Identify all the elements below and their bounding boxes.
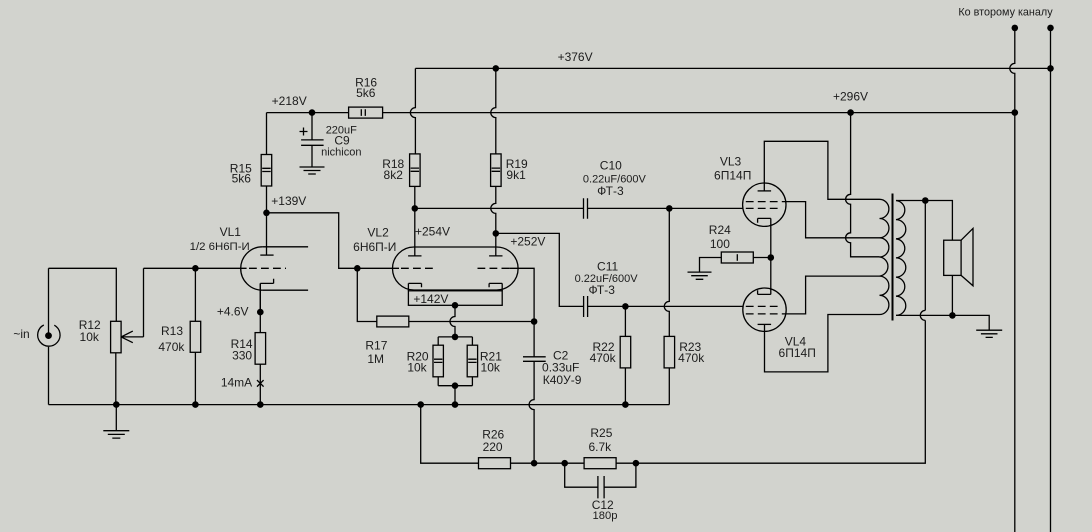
svg-text:1M: 1M [367, 352, 384, 366]
capacitor C11 0.22uF/600V [584, 296, 588, 317]
wire: C11 output line to VL4 grid [588, 305, 743, 307]
wire: R22 leads [624, 306, 626, 404]
node: ground rail at R26 branch [417, 401, 424, 408]
svg-text:180p: 180p [593, 510, 618, 522]
wire: VL2 right anode lead [495, 233, 497, 256]
svg-text:1/2 6Н6П-И: 1/2 6Н6П-И [190, 241, 250, 253]
svg-text:VL2: VL2 [367, 225, 389, 239]
svg-text:+139V: +139V [271, 194, 306, 208]
node: +252V [493, 230, 500, 237]
wire: R20/R21 top and bottom bars and leads [438, 337, 472, 405]
node: R25 left / C12 [561, 460, 568, 467]
wire: R25 right lead [616, 462, 636, 464]
wire: R19 bottom lead with hop over +254V line [491, 186, 496, 233]
node: +296V at channel line 1 [1012, 109, 1019, 116]
svg-text:+142V: +142V [413, 292, 448, 306]
node: VL3/VL4 cathodes at R24 [768, 254, 775, 261]
node: R20/R21 top [452, 334, 459, 341]
resistor R20 10k [433, 345, 443, 377]
ground (C9) [300, 167, 325, 174]
node: R20/R21 bottom [452, 382, 459, 389]
wire: VL2 cathode box bottom to R20/R21 with hop over R17 line [450, 305, 455, 337]
wire: bottom ground rail [49, 404, 670, 406]
wire: +296V feed to primary centre tap with two hops [846, 113, 880, 257]
node: ground rail at R14 [257, 401, 264, 408]
svg-text:~in: ~in [13, 327, 29, 341]
svg-text:+4.6V: +4.6V [217, 305, 249, 319]
capacitor C2 0.33uF K40U-9 [523, 357, 546, 362]
svg-text:+252V: +252V [510, 235, 545, 249]
svg-text:+296V: +296V [833, 89, 868, 103]
wire: +252V node to C11 [496, 233, 584, 306]
svg-text:К40У-9: К40У-9 [543, 373, 582, 387]
svg-text:6П14П: 6П14П [714, 168, 751, 182]
ground (speaker) [976, 330, 1002, 337]
svg-text:ФТ-3: ФТ-3 [597, 184, 624, 198]
capacitor C12 180p [598, 476, 604, 498]
node: cathode box bottom [452, 302, 459, 309]
wire: R24 leads and ground drop [700, 258, 771, 273]
node: ground rail at R13 [192, 401, 199, 408]
svg-text:Ко второму каналу: Ко второму каналу [958, 7, 1053, 19]
resistor R14 330 [255, 333, 266, 365]
speaker [944, 228, 973, 285]
svg-text:VL1: VL1 [220, 225, 242, 239]
wire: R12 bottom lead [115, 353, 117, 405]
tube VL4 6P14P (pentode, mirrored) [743, 288, 786, 331]
svg-text:10k: 10k [407, 361, 427, 375]
svg-text:C11: C11 [597, 259, 618, 273]
svg-text:+376V: +376V [558, 50, 593, 64]
wire: +139V node to VL2 grid node [267, 213, 358, 268]
svg-text:470k: 470k [158, 340, 185, 354]
tube VL2 6N6P-I (double triode, stadium envelope) [357, 247, 518, 291]
14mA break mark (x) [257, 380, 264, 387]
node: R13 top [192, 265, 199, 272]
node: ground rail at R20/R21 [452, 401, 459, 408]
resistor R21 10k [467, 345, 477, 377]
wire: VL3 cathode lead to R24 node [770, 218, 772, 257]
node: +218V / C9 [309, 109, 316, 116]
svg-text:R13: R13 [161, 324, 183, 338]
node: secondary top / feedback [922, 197, 929, 204]
svg-text:14mA: 14mA [221, 376, 252, 390]
wire: C2 bottom lead with hop over ground rail [529, 361, 534, 463]
resistor R18 8k2 [410, 154, 421, 187]
resistor R15 5k6 [261, 155, 272, 187]
wire: R18 leg from +376V rail with hop over +218V line [410, 68, 415, 153]
capacitor C9 220uF nichicon (electrolytic) [300, 128, 324, 146]
wire: R13 leads [194, 268, 196, 404]
svg-text:9k1: 9k1 [506, 168, 526, 182]
resistor R13 470k [190, 321, 201, 352]
resistor R23 470k [664, 336, 675, 368]
ground (R24) [688, 272, 712, 279]
wire: R19 leg from +376V rail with hop over +218V line [491, 68, 496, 153]
resistor R25 6.7k (horizontal) [584, 458, 616, 469]
wire: C9 leads [311, 113, 313, 167]
svg-text:5k6: 5k6 [356, 86, 376, 100]
node: C10 out / VL3 grid [666, 205, 673, 212]
wire: VL4 anode to primary bottom [765, 315, 880, 372]
node: +296V to centre tap [847, 109, 854, 116]
wire: VL1 cathode to +4.6V node and R14 [259, 283, 261, 404]
wire: VL4 cathode lead to R24 node [770, 258, 772, 295]
resistor R12 (potentiometer 10k) [111, 321, 144, 353]
svg-text:+218V: +218V [272, 94, 307, 108]
+142V cathode box of VL2 [408, 291, 502, 306]
svg-text:C10: C10 [600, 159, 622, 173]
svg-text:6Н6П-И: 6Н6П-И [353, 240, 396, 254]
svg-text:100: 100 [710, 237, 730, 251]
wire: VL2 left grid node down to R17 [357, 268, 377, 321]
node: speaker bottom [949, 312, 956, 319]
resistor R17 1M (horizontal) [377, 316, 409, 327]
wire: R26 to C2/R25 node [511, 462, 585, 464]
wire: +376V top rail [415, 67, 1050, 69]
wire: R23 leads with hop over C11 line [664, 208, 669, 404]
svg-text:330: 330 [232, 349, 252, 363]
node: VL2 left grid [354, 265, 361, 272]
tube VL3 6P14P (pentode) [743, 183, 786, 226]
svg-text:C9: C9 [334, 133, 350, 147]
wire: +254V line to C10 and on to VL3 grid [415, 207, 743, 209]
wire: input top to R12 top [49, 268, 117, 321]
wire: input shield to ground rail [48, 347, 50, 405]
node: ground rail at R12 [113, 401, 120, 408]
wire: R12 wiper riser [143, 268, 145, 337]
wire: speaker bottom lead [951, 275, 953, 315]
node: C11 out / R22 [622, 303, 629, 310]
svg-text:470k: 470k [590, 351, 617, 365]
resistor R26 220 (horizontal) [479, 458, 511, 469]
svg-text:220: 220 [483, 440, 503, 454]
wire: VL3 screen to primary UL tap 1 [783, 202, 880, 238]
svg-text:10k: 10k [481, 361, 501, 375]
wire: VL4 screen to primary UL tap 2 [783, 276, 880, 314]
node: R17 / VL2 right grid / C2 [531, 318, 538, 325]
svg-text:+254V: +254V [415, 225, 450, 239]
wire: feedback line from transformer secondary with hop over secondary bottom [636, 201, 925, 464]
wire: VL3 anode to transformer primary top [764, 141, 879, 199]
wire: C12 parallel loop [565, 463, 636, 487]
node: R26 right / C2 bottom [531, 460, 538, 467]
svg-text:R24: R24 [709, 223, 731, 237]
wire: transformer secondary top to speaker [896, 201, 952, 241]
svg-text:ФТ-3: ФТ-3 [588, 283, 615, 297]
wire: +218V / +296V horizontal line [267, 112, 1015, 114]
svg-text:6.7k: 6.7k [588, 440, 612, 454]
transformer primary winding [880, 199, 889, 314]
svg-text:8k2: 8k2 [384, 168, 404, 182]
resistor R22 470k [620, 336, 631, 368]
svg-text:6П14П: 6П14П [779, 346, 816, 360]
wire: second-channel line 1 (left, +296V) with hop over +376V rail [1010, 28, 1015, 532]
transformer secondary winding [896, 201, 906, 316]
svg-text:R17: R17 [365, 338, 387, 352]
tube VL1 1/2 6N6P-I (half triode) [241, 247, 308, 312]
transformer core [892, 194, 894, 321]
resistor R24 100 (horizontal) [721, 252, 753, 263]
node: +254V [412, 205, 419, 212]
node: +139V [263, 210, 270, 217]
node: R25 right / C12 [633, 460, 640, 467]
node: R19 top at +376V rail [493, 65, 500, 72]
wire: VL1 anode lead from +139V node [266, 213, 268, 255]
node: ground rail at R22 [622, 401, 629, 408]
svg-text:470k: 470k [678, 351, 705, 365]
wire: VL2 left anode lead [414, 208, 416, 256]
ground (main, bottom-left) [103, 405, 129, 439]
wire: VL1 grid line (from wiper riser, through R13 node) [144, 267, 247, 269]
wire: second-channel line 2 (right, +376V) [1050, 28, 1052, 532]
svg-text:VL3: VL3 [720, 154, 742, 168]
node: +376V at channel line 2 [1047, 65, 1054, 72]
capacitor C10 0.22uF/600V [584, 198, 588, 219]
resistor R19 9k1 [491, 154, 502, 187]
wire: R17 output to C2 node [409, 321, 534, 323]
svg-text:5k6: 5k6 [232, 172, 252, 186]
svg-text:nichicon: nichicon [321, 147, 361, 159]
wire: VL2 right grid lead down to C2 [509, 268, 534, 357]
node: +4.6V [257, 309, 264, 316]
wire: R15 top lead from +218V line [266, 113, 268, 213]
resistor R16 5k6 (horizontal) [349, 107, 383, 118]
node: channel line 2 top [1047, 25, 1054, 32]
wire: input pin lead [48, 268, 50, 333]
svg-text:R25: R25 [590, 426, 612, 440]
svg-text:10k: 10k [80, 330, 100, 344]
wire: R26 branch from ground rail [421, 405, 479, 464]
input connector (RCA jack) [38, 325, 60, 346]
wire: R18 bottom lead to +254V node [414, 186, 416, 208]
wire: secondary bottom to speaker ground [896, 315, 989, 330]
node: channel line 1 top [1012, 25, 1019, 32]
